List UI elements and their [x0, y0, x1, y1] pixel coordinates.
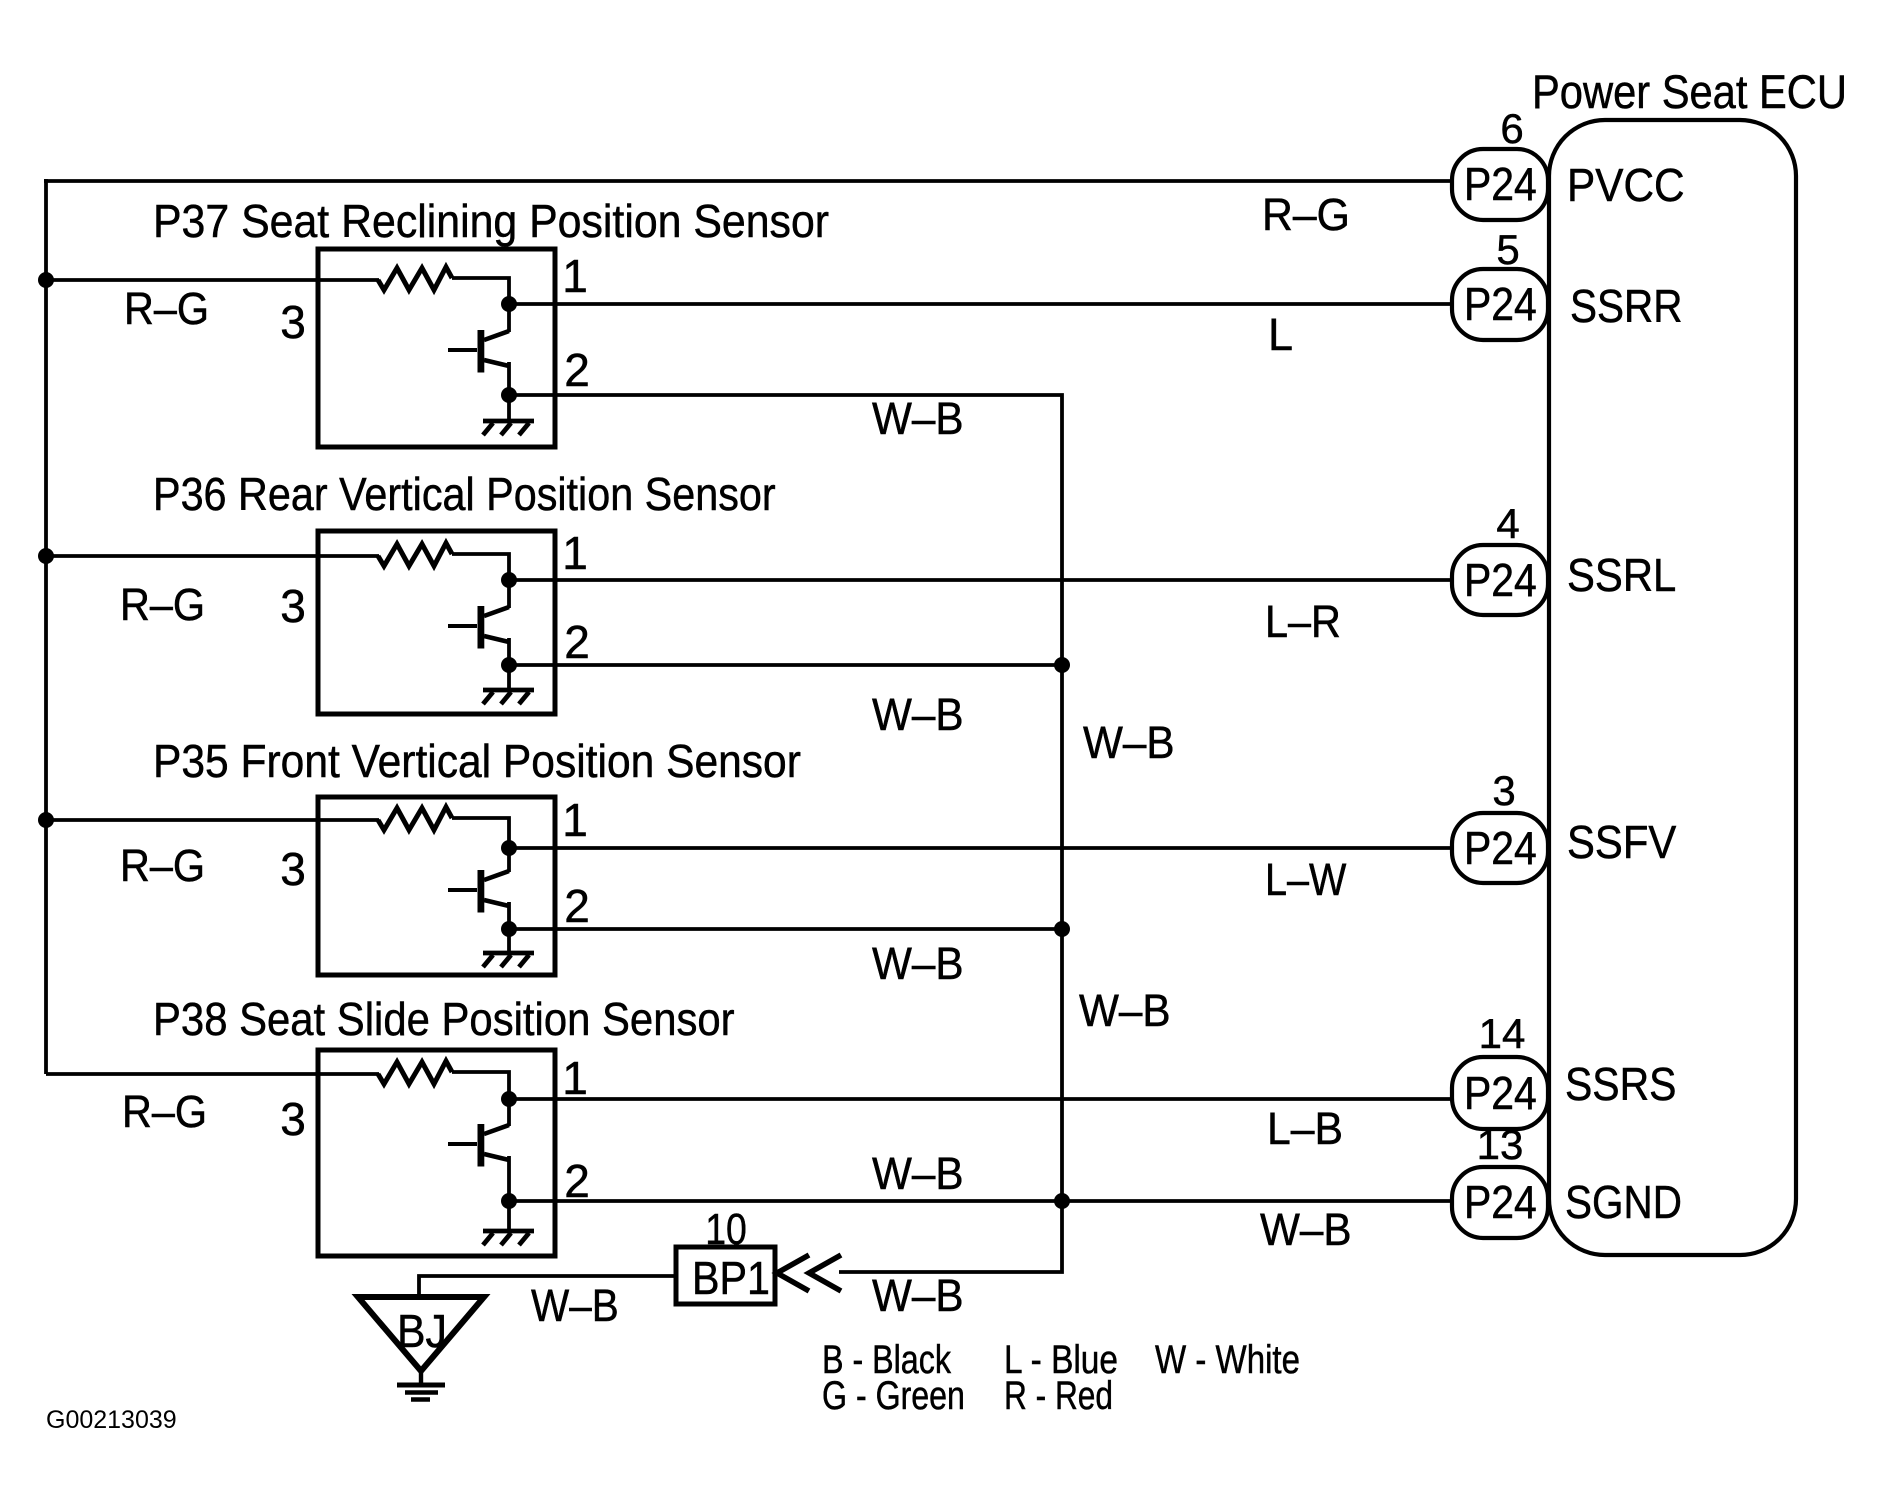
svg-text:W–B: W–B	[1260, 1205, 1352, 1255]
ground P35 chassis symbol	[483, 953, 534, 967]
wire P37 pin 3 (R-G)	[46, 278, 379, 282]
svg-text:1: 1	[562, 794, 588, 846]
wire P35 pin2 to bus	[509, 927, 1062, 931]
svg-text:P24: P24	[1464, 1069, 1537, 1120]
svg-text:R - Red: R - Red	[1004, 1372, 1113, 1417]
svg-text:W–B: W–B	[872, 690, 964, 740]
svg-text:13: 13	[1477, 1121, 1524, 1168]
svg-text:1: 1	[562, 1052, 588, 1104]
svg-text:1: 1	[562, 250, 588, 302]
svg-text:SSRL: SSRL	[1567, 550, 1676, 601]
svg-text:3: 3	[280, 843, 306, 895]
connector P24 pin 14 (SSRS)	[1452, 1057, 1548, 1129]
svg-text:Power Seat ECU: Power Seat ECU	[1532, 67, 1847, 119]
svg-text:P38 Seat Slide Position Sensor: P38 Seat Slide Position Sensor	[153, 994, 735, 1045]
svg-text:5: 5	[1496, 226, 1519, 273]
svg-text:R–G: R–G	[120, 841, 205, 891]
svg-text:BJ: BJ	[397, 1307, 447, 1358]
splice BP1 box	[676, 1247, 775, 1304]
svg-text:W–B: W–B	[531, 1281, 619, 1331]
junction P36 pin 2 node	[501, 657, 517, 673]
arrow chevrons into BP1	[777, 1255, 841, 1291]
junction P37 pin 1 node	[501, 296, 517, 312]
svg-text:P36 Rear Vertical Position Sen: P36 Rear Vertical Position Sensor	[153, 469, 776, 521]
svg-text:SGND: SGND	[1565, 1178, 1682, 1229]
wire BJ stub	[419, 1369, 423, 1385]
svg-text:3: 3	[1492, 767, 1515, 814]
junction P37 pin 2 node	[501, 387, 517, 403]
junction P38 pin 1 node	[501, 1091, 517, 1107]
junction P35 pin 1 node	[501, 840, 517, 856]
ground P37 chassis symbol	[483, 421, 534, 435]
wire P35 pin 3 (R-G)	[46, 818, 379, 822]
svg-text:L–R: L–R	[1265, 597, 1341, 647]
resistor P36 potentiometer element	[378, 543, 452, 566]
svg-text:3: 3	[280, 580, 306, 632]
svg-text:P24: P24	[1464, 556, 1537, 607]
svg-text:2: 2	[564, 880, 590, 932]
junction left bus at P37 pin 3	[38, 272, 54, 288]
wire P36 resistor to collector corner	[452, 554, 509, 608]
svg-text:PVCC: PVCC	[1567, 160, 1685, 211]
svg-text:P24: P24	[1464, 160, 1537, 211]
svg-text:P24: P24	[1464, 1178, 1537, 1229]
svg-text:3: 3	[280, 296, 306, 348]
resistor P37 potentiometer element	[378, 267, 452, 290]
wire P37 resistor to collector corner	[452, 278, 509, 332]
wire P38 emitter to ground	[507, 1201, 511, 1231]
connector P24 pin 4 (SSRL)	[1452, 545, 1548, 615]
junction P36 pin 1 node	[501, 572, 517, 588]
svg-text:W–B: W–B	[872, 394, 964, 444]
junction P35 pin 2 node	[501, 921, 517, 937]
svg-text:L–B: L–B	[1267, 1104, 1343, 1154]
junction left bus at P36 pin 3	[38, 548, 54, 564]
svg-text:2: 2	[564, 344, 590, 396]
junction left bus at P35 pin 3	[38, 812, 54, 828]
svg-text:W–B: W–B	[872, 1149, 964, 1199]
svg-text:P24: P24	[1464, 824, 1537, 875]
wire P36 emitter to ground	[507, 665, 511, 690]
svg-text:6: 6	[1500, 105, 1523, 152]
wire P38 resistor to collector corner	[452, 1072, 509, 1126]
junction bus at P36 pin2	[1054, 657, 1070, 673]
sensor P35 box	[318, 797, 555, 975]
connector P24 pin 5 (SSRR)	[1452, 269, 1548, 340]
transistor P35 (position sensor element)	[448, 870, 509, 929]
connector P24 pin 13 (SGND)	[1452, 1167, 1548, 1238]
transistor P36 (position sensor element)	[448, 606, 509, 665]
svg-text:W–B: W–B	[1083, 718, 1175, 768]
transistor P37 (position sensor element)	[448, 330, 509, 395]
wire P36 pin 3 (R-G)	[46, 554, 379, 558]
svg-text:14: 14	[1479, 1010, 1526, 1057]
legend colour codes line 2	[822, 1372, 1113, 1417]
svg-text:4: 4	[1496, 500, 1519, 547]
svg-text:W - White: W - White	[1155, 1337, 1300, 1382]
ECU U1 Power Seat ECU body	[1549, 120, 1796, 1255]
wire P38 pin 3 (R-G)	[46, 1072, 379, 1076]
junction P38 pin 2 node	[501, 1193, 517, 1209]
wire P37 emitter to ground	[507, 395, 511, 421]
sensor P37 box	[318, 249, 555, 447]
svg-text:2: 2	[564, 616, 590, 668]
svg-text:SSRR: SSRR	[1570, 282, 1682, 333]
wire SGND (W-B) P38 pin2 to P24 pin13	[509, 1199, 1454, 1203]
svg-text:R–G: R–G	[122, 1087, 207, 1137]
ground P36 chassis symbol	[483, 690, 534, 704]
wire P35 emitter to ground	[507, 929, 511, 953]
svg-text:10: 10	[705, 1204, 747, 1254]
svg-text:1: 1	[562, 527, 588, 579]
svg-text:SSRS: SSRS	[1565, 1060, 1676, 1111]
svg-text:P24: P24	[1464, 280, 1537, 331]
connector P24 pin 3 (SSFV)	[1452, 813, 1548, 883]
svg-text:P35 Front Vertical Position Se: P35 Front Vertical Position Sensor	[153, 737, 801, 788]
wire P36 pin2 to bus	[509, 663, 1062, 667]
wire P35 resistor to collector corner	[452, 818, 509, 872]
svg-text:W–B: W–B	[872, 939, 964, 989]
svg-text:P37 Seat Reclining Position Se: P37 Seat Reclining Position Sensor	[153, 197, 829, 248]
wire SSRS (L-B) P38 pin1 to P24 pin14	[509, 1097, 1454, 1101]
svg-text:3: 3	[280, 1093, 306, 1145]
wire SSFV (L-W) P35 pin1 to P24 pin3	[509, 846, 1454, 850]
ground earth symbol below BJ	[397, 1385, 445, 1400]
legend colour codes line 1	[822, 1337, 1300, 1382]
transistor P38 (position sensor element)	[448, 1124, 509, 1201]
wire SSRR (L) P37 pin1 to P24 pin5	[509, 302, 1454, 306]
sensor P36 box	[318, 531, 555, 714]
connector P24 pin 6 (PVCC)	[1452, 149, 1548, 220]
resistor P35 potentiometer element	[378, 807, 452, 830]
ground P38 chassis symbol	[483, 1231, 534, 1245]
wire SSRL (L-R) P36 pin1 to P24 pin4	[509, 578, 1454, 582]
wire R-G left vertical bus	[44, 179, 48, 1074]
svg-text:R–G: R–G	[120, 580, 205, 630]
svg-text:G - Green: G - Green	[822, 1373, 965, 1418]
svg-text:G00213039: G00213039	[46, 1406, 177, 1434]
wire BP1 to BJ ground	[419, 1276, 676, 1299]
wire R-G top horizontal (to PVCC)	[44, 179, 1454, 183]
wire P37 pin2 to W-B bus corner	[509, 395, 1062, 1272]
svg-text:R–G: R–G	[124, 284, 209, 334]
resistor P38 potentiometer element	[378, 1061, 452, 1084]
svg-text:W–B: W–B	[872, 1271, 964, 1321]
junction bus at SGND wire	[1054, 1193, 1070, 1209]
svg-text:W–B: W–B	[1079, 986, 1171, 1036]
ground BJ triangle symbol	[358, 1297, 484, 1371]
svg-text:R–G: R–G	[1262, 190, 1350, 240]
svg-text:BP1: BP1	[692, 1253, 770, 1305]
svg-text:L: L	[1268, 309, 1293, 360]
sensor P38 box	[318, 1050, 555, 1256]
svg-text:L–W: L–W	[1265, 855, 1346, 905]
junction bus at P35 pin2	[1054, 921, 1070, 937]
svg-text:SSFV: SSFV	[1567, 817, 1677, 868]
